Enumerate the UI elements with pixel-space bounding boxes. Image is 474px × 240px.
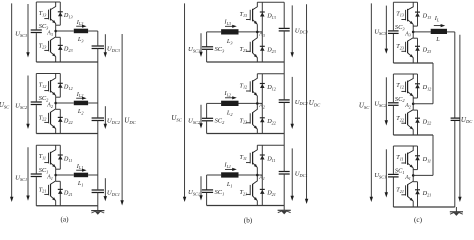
voltage arrow U_SC2 (figure a): [26, 76, 29, 130]
svg-text:IL3: IL3: [76, 19, 84, 26]
diode D23 (figure c): [413, 38, 420, 63]
svg-text:USC3: USC3: [374, 29, 387, 36]
wire bottom rail: [36, 61, 98, 63]
svg-text:A1: A1: [404, 175, 411, 181]
voltage arrow U_DC3 (figure a): [104, 34, 107, 57]
svg-text:USC1: USC1: [15, 175, 27, 182]
IGBT T22 (figure c): [401, 104, 413, 135]
svg-text:T22: T22: [396, 115, 404, 122]
svg-text:USC3: USC3: [15, 31, 27, 38]
supercapacitor SC2 (figure a): [31, 102, 42, 105]
svg-text:UDC1: UDC1: [107, 190, 120, 197]
svg-text:IL2: IL2: [76, 91, 84, 98]
IGBT T11 (figure b): [246, 145, 257, 175]
svg-text:UDC3: UDC3: [295, 27, 308, 34]
wire left branch upper: [392, 74, 394, 102]
supercapacitor SC1 (figure c): [388, 174, 399, 177]
capacitor U_DC1 (figure b): [279, 172, 290, 175]
svg-text:T11: T11: [39, 153, 46, 160]
svg-text:UDC2: UDC2: [107, 118, 121, 125]
node A3 (figure a): [54, 30, 57, 33]
svg-text:L2: L2: [226, 109, 233, 116]
voltage arrow U_DC2 (figure b): [291, 77, 294, 129]
svg-text:USC: USC: [0, 101, 10, 109]
diode D22 (figure b): [260, 103, 265, 133]
svg-text:T12: T12: [240, 82, 248, 89]
capacitor U_DC3 (figure a): [92, 46, 104, 49]
svg-text:(a): (a): [61, 216, 70, 224]
svg-text:UDC: UDC: [309, 99, 321, 107]
svg-text:D23: D23: [63, 46, 73, 53]
current arrow I_L3 (figure a): [76, 25, 86, 28]
inductor L2 (figure a): [74, 101, 88, 106]
current arrow I_L1 (figure b): [225, 168, 237, 171]
svg-text:UDC3: UDC3: [107, 46, 120, 53]
svg-text:A2: A2: [46, 102, 53, 108]
voltage arrow U_DC2 (figure a): [104, 106, 107, 129]
wire input corner: [206, 103, 208, 118]
wire dc link upper: [454, 32, 456, 118]
svg-text:D12: D12: [63, 84, 73, 91]
wire left branch lower: [392, 34, 394, 63]
ground (figure a): [91, 206, 104, 215]
svg-text:UDC1: UDC1: [295, 170, 308, 177]
current arrow I_L (figure c): [434, 24, 445, 27]
diode D13 (figure a): [56, 2, 63, 25]
wire top rail: [36, 1, 60, 3]
supercapacitor SC3 (figure c): [388, 31, 399, 34]
wire bottom rail: [207, 61, 285, 63]
wire inductor to node: [239, 102, 263, 104]
svg-text:A3: A3: [46, 30, 53, 36]
diode D13 (figure c): [413, 2, 420, 26]
svg-text:L1: L1: [226, 181, 233, 188]
voltage arrow U_DC3 (figure b): [291, 5, 294, 57]
wire top rail: [257, 73, 284, 75]
supercapacitor SC3 (figure b): [202, 47, 213, 50]
svg-text:IL2: IL2: [224, 90, 232, 97]
diode D22 (figure a): [56, 109, 63, 133]
voltage arrow U_SC3 (figure b): [199, 33, 202, 57]
wire sc to bottom rail: [206, 193, 208, 206]
node A1 (figure b): [256, 174, 259, 177]
svg-text:USC2: USC2: [374, 101, 387, 108]
diode D11 (figure c): [413, 146, 420, 170]
svg-text:D12: D12: [266, 84, 276, 91]
voltage arrow U_SC2 (figure c): [385, 77, 388, 125]
inductor L1 (figure b): [221, 172, 238, 177]
svg-text:(c): (c): [414, 216, 423, 224]
diode D21 (figure c): [413, 182, 420, 207]
svg-text:D21: D21: [266, 190, 276, 197]
voltage arrow U_SC1 (figure c): [385, 149, 388, 197]
wire dc link: [283, 31, 285, 100]
inductor L2 (figure b): [221, 101, 238, 106]
svg-text:D23: D23: [422, 46, 432, 53]
svg-text:IL: IL: [434, 15, 440, 22]
diode D23 (figure b): [260, 32, 265, 62]
inductor L3 (figure b): [221, 29, 238, 34]
voltage arrow U_SC (figure c total input): [370, 3, 373, 202]
wire dc link: [283, 2, 285, 28]
supercapacitor SC2 (figure b): [202, 118, 213, 121]
wire corner to inductor: [207, 31, 222, 33]
svg-text:SC3: SC3: [395, 24, 405, 31]
wire dc link: [97, 121, 99, 191]
IGBT T21 (figure c): [401, 175, 413, 207]
wire node A1 tap: [413, 174, 433, 176]
diode D12 (figure a): [56, 74, 63, 98]
svg-text:D11: D11: [63, 155, 72, 162]
voltage arrow U_SC2 (figure b): [199, 105, 202, 129]
current arrow I_L2 (figure a): [76, 97, 86, 100]
wire left branch lower: [35, 33, 37, 62]
diode D11 (figure a): [56, 145, 63, 169]
svg-text:A3: A3: [258, 32, 265, 38]
diode D12 (figure c): [413, 74, 420, 98]
wire inductor to dc link: [88, 30, 98, 32]
wire inductor to dc link: [447, 31, 455, 33]
svg-text:T23: T23: [39, 42, 47, 49]
svg-text:D21: D21: [63, 190, 73, 197]
IGBT T23 (figure a): [44, 31, 55, 62]
wire left branch lower: [392, 178, 394, 208]
IGBT T11 (figure a): [44, 145, 55, 175]
wire inductor to dc link: [88, 102, 98, 104]
svg-text:L1: L1: [77, 180, 84, 187]
IGBT T12 (figure c): [401, 74, 413, 104]
svg-text:IL3: IL3: [224, 19, 232, 26]
wire bottom rail: [36, 133, 98, 135]
IGBT T11 (figure c): [401, 146, 413, 175]
wire top rail: [393, 73, 417, 75]
svg-text:L3: L3: [226, 38, 233, 45]
voltage arrow U_DC (figure b total): [305, 4, 308, 204]
svg-text:USC: USC: [171, 114, 182, 122]
wire node to inductor: [56, 30, 74, 32]
svg-text:UDC: UDC: [124, 117, 136, 125]
svg-text:D22: D22: [63, 118, 73, 125]
diode D22 (figure c): [413, 110, 420, 135]
wire dc link lower: [454, 121, 456, 207]
voltage arrow U_SC3 (figure a): [26, 4, 29, 58]
diode D21 (figure b): [260, 175, 265, 206]
svg-text:A2: A2: [404, 103, 411, 109]
inductor L (figure c): [431, 29, 447, 34]
wire bottom rail: [393, 206, 454, 208]
svg-text:SC1: SC1: [215, 189, 225, 196]
wire input corner: [206, 175, 208, 190]
wire chain cell3 to A2: [432, 63, 434, 104]
supercapacitor SC3 (figure a): [31, 30, 42, 33]
capacitor U_DC3 (figure b): [279, 28, 290, 31]
svg-text:(b): (b): [244, 217, 253, 225]
wire inductor to node: [239, 31, 263, 33]
svg-text:D23: D23: [266, 46, 276, 53]
svg-text:A3: A3: [404, 31, 411, 37]
svg-text:T23: T23: [396, 43, 404, 50]
supercapacitor SC1 (figure b): [202, 190, 213, 193]
supercapacitor SC1 (figure a): [31, 174, 42, 177]
capacitor U_DC2 (figure a): [92, 118, 104, 121]
IGBT T21 (figure a): [44, 175, 55, 206]
wire dc link: [97, 49, 99, 119]
svg-text:L: L: [435, 36, 440, 43]
wire node to inductor: [413, 31, 431, 33]
IGBT T23 (figure b): [246, 32, 257, 62]
wire dc link: [97, 193, 99, 206]
IGBT T21 (figure b): [246, 175, 257, 206]
IGBT T22 (figure a): [44, 103, 55, 134]
svg-text:T12: T12: [396, 82, 404, 89]
wire node to inductor: [56, 102, 74, 104]
wire input corner: [206, 32, 208, 47]
node A2 (figure b): [256, 102, 259, 105]
svg-text:T21: T21: [39, 186, 47, 193]
wire left branch upper: [392, 2, 394, 30]
voltage arrow U_DC1 (figure a): [104, 178, 107, 201]
node A3 (figure b): [256, 31, 259, 34]
svg-text:D13: D13: [63, 12, 73, 19]
svg-text:L2: L2: [77, 108, 84, 115]
svg-text:USC2: USC2: [188, 118, 201, 125]
voltage arrow U_SC3 (figure c): [385, 6, 388, 54]
voltage arrow U_DC1 (figure b): [291, 148, 294, 201]
IGBT T22 (figure b): [246, 103, 257, 133]
IGBT T13 (figure b): [246, 2, 257, 32]
wire bottom rail: [393, 134, 433, 136]
svg-text:USC2: USC2: [15, 103, 28, 110]
wire bottom rail: [207, 133, 285, 135]
svg-text:USC1: USC1: [188, 189, 200, 196]
diode D23 (figure a): [56, 37, 63, 62]
svg-text:UDC: UDC: [461, 116, 473, 124]
supercapacitor SC2 (figure c): [388, 103, 399, 106]
wire dc link: [97, 31, 99, 46]
diode D21 (figure a): [56, 181, 63, 206]
svg-text:SC1: SC1: [395, 167, 405, 174]
svg-text:T12: T12: [39, 82, 47, 89]
svg-text:USC3: USC3: [188, 46, 200, 53]
wire dc link: [283, 174, 285, 206]
svg-text:D13: D13: [422, 13, 432, 20]
wire left branch upper: [392, 146, 394, 174]
svg-text:SC2: SC2: [39, 95, 49, 102]
IGBT T12 (figure b): [246, 74, 257, 104]
diode D12 (figure b): [260, 74, 265, 104]
voltage arrow U_SC1 (figure b): [199, 176, 202, 200]
inductor L3 (figure a): [74, 29, 88, 34]
svg-text:T23: T23: [240, 46, 248, 53]
svg-text:T13: T13: [240, 11, 248, 18]
svg-text:IL1: IL1: [76, 163, 84, 170]
current arrow I_L3 (figure b): [225, 25, 237, 28]
wire sc to bottom rail: [206, 121, 208, 133]
wire dc link: [283, 102, 285, 171]
svg-text:IL1: IL1: [224, 162, 232, 169]
node A2 (figure a): [54, 102, 57, 105]
svg-text:T22: T22: [240, 117, 248, 124]
svg-text:D22: D22: [266, 118, 276, 125]
svg-text:T21: T21: [240, 189, 248, 196]
wire node A2 tap: [413, 103, 433, 105]
svg-text:SC2: SC2: [215, 118, 225, 125]
node A1 (figure a): [54, 174, 57, 177]
diode D13 (figure b): [260, 2, 265, 32]
svg-text:SC3: SC3: [215, 46, 225, 53]
IGBT T12 (figure a): [44, 74, 55, 104]
svg-text:A1: A1: [46, 174, 53, 180]
wire top rail: [257, 1, 284, 3]
wire bottom rail: [207, 205, 285, 207]
wire top rail: [36, 73, 60, 75]
wire bottom rail: [393, 62, 433, 64]
wire left branch lower: [392, 106, 394, 135]
wire node to inductor: [56, 174, 74, 176]
svg-text:D21: D21: [422, 190, 432, 197]
voltage arrow U_SC1 (figure a): [26, 147, 29, 201]
capacitor U_DC2 (figure b): [279, 100, 290, 103]
wire left branch upper: [35, 2, 37, 29]
wire left branch lower: [35, 177, 37, 206]
svg-text:SC2: SC2: [395, 96, 405, 103]
node A3 (figure c): [412, 31, 415, 34]
wire top rail: [393, 145, 417, 147]
svg-text:T22: T22: [39, 114, 47, 121]
node A2 (figure c): [412, 103, 415, 106]
diode D11 (figure b): [260, 145, 265, 175]
node A1 (figure c): [412, 174, 415, 177]
wire sc to bottom rail: [206, 50, 208, 62]
wire top rail: [257, 144, 284, 146]
IGBT T23 (figure c): [401, 32, 413, 63]
svg-text:D12: D12: [422, 84, 432, 91]
svg-text:USC1: USC1: [374, 172, 386, 179]
wire inductor to dc link: [88, 174, 98, 176]
voltage arrow U_DC (figure c total): [458, 35, 461, 202]
svg-text:T13: T13: [39, 10, 47, 17]
wire left branch upper: [35, 145, 37, 173]
capacitor U_DC (figure c): [451, 118, 460, 120]
svg-text:USC: USC: [359, 102, 370, 110]
svg-text:T21: T21: [396, 187, 404, 194]
voltage arrow U_SC (figure b total input): [183, 3, 186, 202]
svg-text:L3: L3: [77, 36, 84, 43]
wire left branch lower: [35, 105, 37, 133]
ground (figure c): [450, 207, 463, 216]
ground (figure b): [278, 206, 291, 215]
IGBT T13 (figure c): [401, 2, 413, 32]
voltage arrow U_DC (figure a total): [120, 34, 123, 206]
current arrow I_L2 (figure b): [225, 96, 237, 99]
wire inductor to node: [239, 174, 263, 176]
voltage arrow U_SC (figure a total input): [10, 3, 13, 202]
svg-text:D11: D11: [266, 156, 275, 163]
IGBT T13 (figure a): [44, 2, 55, 31]
svg-text:D22: D22: [422, 118, 432, 125]
svg-text:A1: A1: [258, 175, 265, 181]
svg-text:SC1: SC1: [39, 167, 49, 174]
svg-text:T11: T11: [396, 154, 403, 161]
current arrow I_L1 (figure a): [76, 169, 86, 172]
capacitor U_DC1 (figure a): [92, 190, 104, 193]
wire corner to inductor: [207, 102, 222, 104]
svg-text:T13: T13: [396, 10, 404, 17]
svg-text:D13: D13: [266, 13, 276, 20]
inductor L1 (figure a): [74, 173, 88, 178]
wire corner to inductor: [207, 174, 222, 176]
svg-text:SC3: SC3: [39, 23, 49, 30]
wire top rail: [393, 1, 417, 3]
svg-text:D11: D11: [422, 156, 431, 163]
wire chain cell2 to A1: [432, 135, 434, 175]
svg-text:A2: A2: [258, 103, 265, 109]
svg-text:T11: T11: [240, 154, 247, 161]
wire bottom rail: [36, 205, 98, 207]
wire top rail: [36, 144, 60, 146]
wire left branch upper: [35, 74, 37, 102]
